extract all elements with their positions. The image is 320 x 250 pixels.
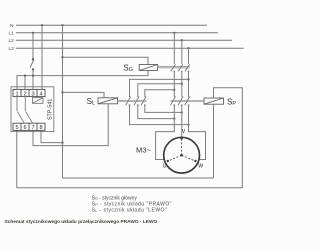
junction dot L1 right drop: [173, 32, 175, 34]
contact SG blades: [171, 64, 190, 71]
junction dot N to SL wire: [61, 91, 63, 93]
junction dot N/T4 drop: [41, 24, 43, 26]
wire L1 drop upper: [32, 33, 34, 60]
junction dot SL loop to L1: [173, 118, 175, 120]
motor M1 circle: [164, 137, 200, 173]
wire L1 drop lower to terminal 3: [32, 69, 34, 89]
switch Q1 blade: [30, 60, 34, 68]
svg-text:3: 3: [31, 91, 34, 97]
junction dot N distribution drop: [61, 24, 63, 26]
node L2 rail: [16, 39, 232, 41]
wire SP coil top loop to terminal 5: [17, 88, 243, 188]
wire phase L2 middle segment: [181, 71, 183, 97]
wire phase L1 middle segment: [173, 71, 175, 97]
wire phase L3 lower to motor W: [189, 105, 206, 160]
node L3 rail: [16, 47, 244, 49]
svg-text:V: V: [182, 129, 186, 135]
STP internal contact 1 blade to pin 6: [17, 112, 24, 124]
svg-text:7: 7: [31, 125, 34, 131]
junction dot L3 tap to SL loop: [187, 78, 189, 80]
motor internal spoke V (dashed): [181, 138, 183, 155]
wire SG coil bottom feed: [17, 71, 148, 90]
wire terminal 2 stub: [24, 76, 26, 90]
motor internal spoke U (dashed): [168, 155, 182, 161]
svg-text:SL: SL: [87, 97, 95, 106]
node N rail: [16, 24, 207, 26]
mechanical link SG coil to contacts: [158, 67, 190, 68]
svg-text:W: W: [198, 163, 203, 169]
svg-text:SG - stycznik główny: SG - stycznik główny: [92, 195, 138, 201]
wire SL loop top L2 branch: [138, 84, 182, 97]
mechanical link SP coil to contacts: [170, 100, 204, 101]
svg-text:5: 5: [15, 125, 18, 131]
contactor SP contacts (3 poles) blades: [171, 97, 190, 106]
wire SP coil bottom to N loop: [213, 104, 215, 178]
coil SP: [204, 98, 224, 104]
wire N drop to terminal 4: [41, 25, 43, 89]
svg-text:6: 6: [23, 125, 26, 131]
junction dot N to T8 wire: [61, 142, 63, 144]
STP internal contact 1 common wire: [16, 97, 18, 112]
svg-text:N: N: [10, 23, 14, 29]
wire SL loop bottom L3->L3 branch: [130, 105, 189, 125]
switch Q1 upper contact dot: [32, 58, 34, 60]
wire SL loop bottom L2->L1 branch: [138, 105, 175, 119]
junction dot L2 tap to SL loop: [181, 83, 183, 85]
junction dot L1 left drop: [32, 32, 34, 34]
coil SL: [98, 98, 118, 104]
svg-text:U: U: [163, 163, 167, 169]
svg-text:SG: SG: [123, 64, 133, 73]
svg-text:8: 8: [39, 125, 42, 131]
svg-text:1: 1: [15, 91, 18, 97]
switch Q1 lower contact dot: [32, 68, 34, 70]
STP internal contact 2 common wire: [24, 97, 26, 112]
STP internal contact 2 blade to pin 7: [26, 112, 33, 124]
motor center dot: [180, 154, 183, 157]
svg-text:M3~: M3~: [136, 146, 152, 155]
STP-541 top terminal strip: [13, 89, 45, 96]
junction dot L3 right drop: [187, 47, 189, 49]
junction dot T2 stub: [24, 75, 26, 77]
contact SL lower terminal dots: [129, 104, 146, 106]
svg-text:L2: L2: [8, 38, 14, 44]
junction dot L2 right drop: [181, 39, 183, 41]
wire phase L1 lower to motor U: [156, 105, 175, 160]
wire SL coil bottom to terminal 7: [33, 104, 108, 146]
junction dot T3 drop: [32, 75, 34, 77]
svg-text:L3: L3: [8, 46, 14, 52]
wire SL coil top to N: [63, 92, 105, 97]
svg-text:2: 2: [23, 91, 26, 97]
STP-541 box: [11, 87, 54, 132]
motor internal spoke W (dashed): [182, 155, 196, 161]
svg-text:4: 4: [39, 91, 42, 97]
contactor SL contacts (3 poles) blades: [126, 97, 146, 106]
mechanical link SL coil to contacts: [118, 100, 147, 101]
junction dot L1 tap to SL loop: [173, 89, 175, 91]
wire phase L3 middle segment: [188, 71, 190, 97]
svg-text:L1: L1: [8, 31, 14, 37]
wire N distribution vertical: [62, 25, 64, 178]
contact SG lower terminal dots: [174, 71, 190, 73]
svg-text:SL - stycznik układu "LEWO": SL - stycznik układu "LEWO": [92, 208, 167, 214]
contactor SG main contacts (3 poles): [174, 33, 188, 64]
junction dot SL loop to L2: [181, 111, 183, 113]
wire SG coil top feed: [63, 57, 149, 64]
wire SL loop top L1 branch: [145, 90, 175, 97]
wire terminal 8 to N: [41, 130, 63, 142]
wire phase L2 lower to motor V: [181, 105, 183, 137]
wire SL loop top L3 branch: [130, 79, 189, 97]
STP-541 bottom terminal strip: [13, 123, 45, 130]
wire N loop to SP coil bottom: [63, 177, 214, 179]
svg-text:Schemat stycznikowego układu p: Schemat stycznikowego układu przełącznik…: [5, 219, 158, 225]
svg-text:STP-541: STP-541: [47, 99, 53, 120]
node L1 rail: [16, 32, 218, 34]
coil SG: [139, 65, 157, 71]
contact SP lower terminal dots: [174, 104, 190, 106]
STP internal relay coil: [33, 98, 44, 104]
junction dot SL loop to L3: [187, 124, 189, 126]
junction dot N to SG wire: [61, 56, 63, 58]
svg-text:SP: SP: [227, 97, 236, 106]
motor spoke end dots: [167, 137, 197, 162]
wire SL loop bottom L1->L2 branch: [145, 105, 182, 113]
